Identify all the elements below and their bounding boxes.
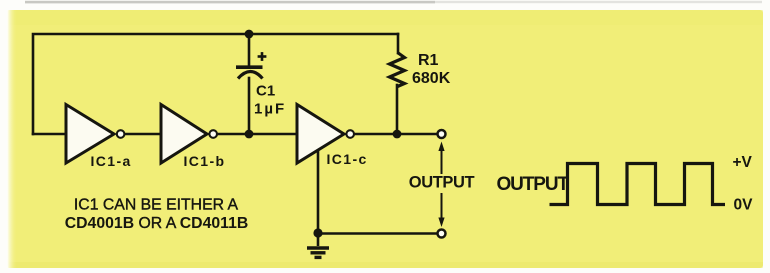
svg-text:1µF: 1µF <box>254 101 286 118</box>
wire top feedback <box>33 34 398 134</box>
svg-text:OUTPUT: OUTPUT <box>409 174 475 192</box>
capacitor C1 polarity plus <box>258 52 267 61</box>
svg-text:IC1-b: IC1-b <box>184 153 226 169</box>
inverter gate IC1-c <box>297 105 354 164</box>
junction dot bottom of C1 <box>245 130 254 139</box>
junction dot ground node <box>313 228 322 237</box>
wire resistor branch lower <box>396 85 399 134</box>
junction dot top of C1 <box>245 30 254 39</box>
inverter gate IC1-a <box>66 105 124 164</box>
svg-text:+V: +V <box>733 154 753 171</box>
svg-text:IC1-a: IC1-a <box>91 153 132 169</box>
wire resistor branch upper <box>397 34 400 53</box>
ground symbol <box>307 233 329 257</box>
resistor R1 zigzag <box>390 53 405 87</box>
top edge smudge <box>25 1 435 4</box>
output terminal lower <box>438 230 446 238</box>
wire IC1-b output to IC1-c input <box>218 133 298 136</box>
wire bottom to lower terminal <box>318 232 437 235</box>
wire input to IC1-a <box>33 133 66 136</box>
wire capacitor branch upper <box>248 34 251 66</box>
svg-text:IC1-c: IC1-c <box>327 151 368 167</box>
output arrow upper <box>438 142 444 175</box>
wire IC1-c output to output terminal <box>355 133 441 136</box>
svg-text:0V: 0V <box>734 197 754 214</box>
wire capacitor branch lower <box>248 78 251 134</box>
capacitor C1 <box>236 67 263 78</box>
junction dot bottom of R1 <box>393 130 402 139</box>
svg-text:680K: 680K <box>412 70 451 87</box>
svg-text:OUTPUT: OUTPUT <box>497 174 570 195</box>
output arrow lower <box>438 193 444 227</box>
svg-text:CD4001B OR A CD4011B: CD4001B OR A CD4011B <box>65 215 249 232</box>
wire IC1-a output to IC1-b input <box>126 133 162 136</box>
svg-text:IC1 CAN BE EITHER A: IC1 CAN BE EITHER A <box>74 197 239 214</box>
svg-text:C1: C1 <box>256 83 275 100</box>
wire ground branch from IC1-c <box>317 149 320 233</box>
output terminal upper <box>438 130 446 138</box>
inverter gate IC1-b <box>161 105 217 164</box>
waveform square wave <box>550 164 726 205</box>
svg-text:R1: R1 <box>418 52 439 69</box>
